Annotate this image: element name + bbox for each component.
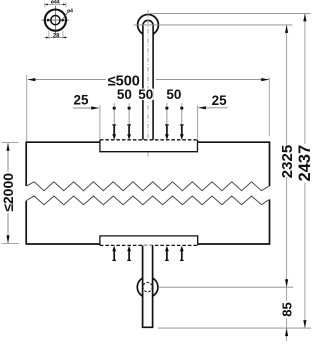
dimension 2325 line: [286, 26, 288, 342]
screw 2 bottom: [127, 246, 131, 261]
centerline horizontal: [41, 19, 69, 21]
svg-text:28: 28: [53, 33, 60, 39]
svg-text:2437: 2437: [296, 145, 314, 182]
screw spacing stubs: [114, 103, 182, 107]
bottom mounting plate: [100, 236, 198, 246]
label ø4 leader: [63, 12, 67, 18]
body right edge with break gap: [269, 141, 271, 244]
dimension ø44 arrowheads: [45, 3, 66, 5]
svg-text:≤2000: ≤2000: [0, 173, 16, 212]
dimension ≤2000 line: [7, 143, 9, 243]
screw 3 top: [165, 107, 169, 140]
screw 3 bottom: [165, 246, 169, 261]
svg-text:ø4: ø4: [67, 8, 73, 14]
bottom pivot hidden circle dashed: [143, 282, 152, 291]
break zigzag line upper: [26, 182, 268, 191]
extension line rod bottom: [158, 327, 311, 329]
screw 1 top: [112, 107, 116, 140]
detail view top pivot plate (top-left): [41, 0, 73, 39]
rod vertical centerline dash-dot: [147, 10, 149, 157]
dimension 2325 arrowheads: [285, 25, 288, 287]
pivot horizontal centerline / extension to 2325: [134, 24, 293, 26]
hole dot right: [61, 19, 64, 22]
dimension ≤500 extension line right: [268, 77, 270, 136]
label 50 right: [166, 87, 182, 102]
screw 2 top: [127, 107, 131, 140]
dimension 28 extension lines: [49, 31, 63, 39]
dimension ø44 extension lines: [45, 2, 66, 7]
dimension ≤500 extension line left: [26, 75, 28, 141]
extension line bottom pivot center: [158, 286, 293, 288]
dimension 85 outside arrowhead: [285, 328, 288, 336]
svg-text:50: 50: [166, 87, 181, 102]
screw 4 top: [180, 107, 184, 140]
svg-text:85: 85: [279, 302, 294, 316]
dimension 28 arrowheads: [46, 37, 66, 39]
svg-text:50: 50: [138, 87, 153, 102]
body bottom edge: [26, 243, 269, 245]
dimension 25 right: [198, 93, 228, 139]
plate hidden bottom edge dashed: [100, 244, 198, 246]
door panel body: [26, 141, 269, 244]
dimension 2437 arrowheads: [303, 13, 306, 328]
dimension ≤2000 arrowheads: [6, 143, 9, 244]
dimension ø44 line: [45, 3, 66, 5]
screw 1 bottom: [112, 246, 116, 261]
plate hidden top edge dashed: [100, 139, 198, 141]
svg-text:≤500: ≤500: [108, 74, 140, 90]
dimension ≤2000 extension lines: [2, 143, 19, 244]
bottom screws: [112, 246, 183, 261]
body left edge with break gap: [25, 141, 27, 244]
bottom pivot rod: [143, 245, 153, 327]
hole dot left: [47, 19, 50, 22]
bottom pivot outer circle: [137, 277, 158, 298]
svg-text:25: 25: [212, 93, 228, 108]
top pivot outer circle: [138, 15, 159, 36]
screw 4 bottom: [180, 246, 184, 261]
centerline vertical: [54, 6, 56, 34]
outer circle ø44: [45, 10, 66, 31]
svg-text:ø44: ø44: [51, 0, 60, 5]
top extension line from pivot top to 2437: [150, 12, 310, 14]
svg-text:2325: 2325: [279, 145, 296, 178]
top mounting plate: [100, 140, 198, 152]
dimension 28 line: [44, 37, 68, 39]
dimension 2437 line: [304, 14, 306, 328]
body top edge: [26, 141, 269, 143]
label 50 left: [117, 87, 133, 102]
label 50 middle: [138, 87, 154, 102]
break zigzag line lower: [26, 196, 268, 205]
svg-text:25: 25: [73, 92, 89, 107]
dimension ≤500 line: [28, 79, 269, 81]
dimension ≤500 arrowheads: [27, 78, 269, 81]
dimension 25 left: [73, 92, 100, 138]
inner circle: [51, 16, 60, 25]
suspension rod with round cap: [143, 20, 153, 140]
top screws: [112, 107, 183, 140]
